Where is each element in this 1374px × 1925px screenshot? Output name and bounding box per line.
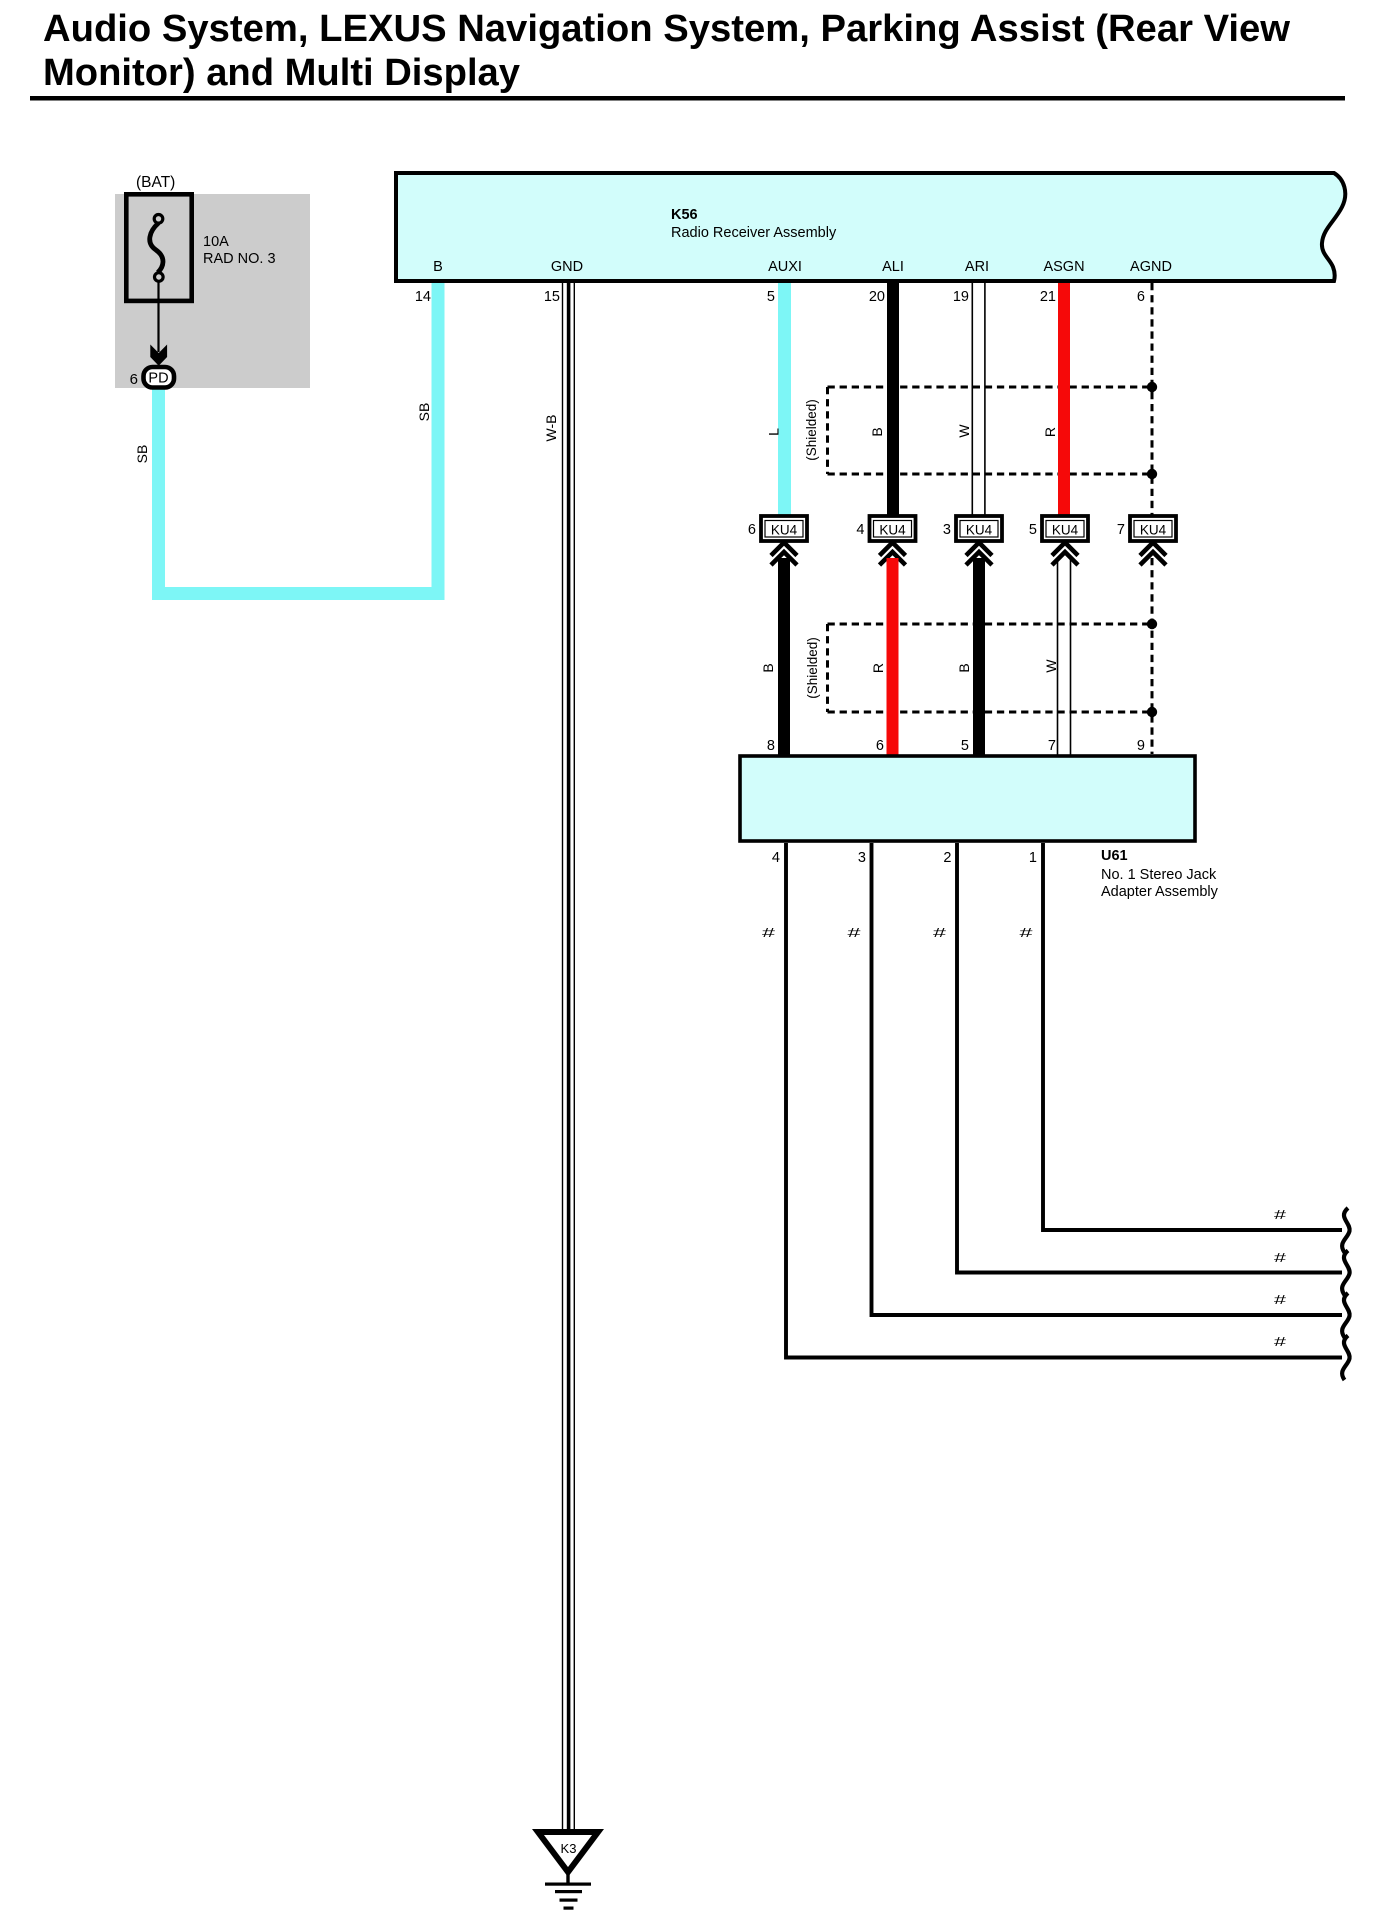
svg-text:#: # — [762, 926, 775, 940]
svg-text:(BAT): (BAT) — [136, 174, 175, 191]
U61 box No. 1 Stereo Jack Adapter Assembly — [740, 756, 1219, 900]
svg-text:#: # — [1274, 1208, 1286, 1222]
svg-text:B: B — [433, 259, 443, 275]
ground K3 — [538, 1832, 598, 1910]
svg-text:L: L — [766, 428, 782, 436]
svg-text:1: 1 — [1029, 850, 1037, 866]
svg-text:6: 6 — [748, 522, 756, 538]
svg-text:R: R — [870, 663, 886, 673]
svg-text:3: 3 — [943, 522, 951, 538]
connector KU4 pin 6 — [748, 516, 807, 565]
svg-text:6: 6 — [1137, 289, 1145, 305]
svg-text:GND: GND — [551, 259, 583, 275]
svg-text:5: 5 — [767, 289, 775, 305]
lower wire R (KU4-4 to U61 pin 6) — [887, 558, 899, 755]
svg-text:R: R — [1042, 427, 1058, 437]
wire from U61 pin 3 — [872, 843, 1343, 1315]
tear mark wire 3 — [1342, 1293, 1350, 1338]
svg-text:14: 14 — [415, 289, 431, 305]
svg-text:SB: SB — [416, 403, 432, 422]
svg-text:PD: PD — [148, 371, 168, 387]
svg-text:20: 20 — [869, 289, 885, 305]
connector KU4 pin 5 — [1029, 516, 1088, 565]
svg-text:B: B — [760, 663, 776, 672]
svg-text:#: # — [1274, 1293, 1286, 1307]
K56 box Radio Receiver Assembly — [396, 173, 1345, 281]
pin numbers above U61 — [767, 738, 1145, 754]
svg-text:Audio System, LEXUS Navigation: Audio System, LEXUS Navigation System, P… — [43, 8, 1290, 50]
svg-text:No. 1 Stereo Jack: No. 1 Stereo Jack — [1101, 867, 1217, 883]
svg-text:SB: SB — [134, 445, 150, 464]
wire ARI W (white, double thin line) — [972, 283, 986, 515]
svg-text:ASGN: ASGN — [1043, 259, 1084, 275]
lower wire dashed (KU4-7 to U61 pin 9) — [1151, 558, 1154, 754]
svg-text:19: 19 — [953, 289, 969, 305]
svg-text:ARI: ARI — [965, 259, 989, 275]
svg-text:KU4: KU4 — [879, 523, 906, 538]
svg-text:W-B: W-B — [543, 415, 559, 442]
svg-text:5: 5 — [961, 738, 969, 754]
connector KU4 pin 4 — [856, 516, 915, 565]
svg-text:7: 7 — [1117, 522, 1125, 538]
svg-text:6: 6 — [876, 738, 884, 754]
hash marks below U61 — [762, 926, 1033, 940]
hash marks at right wire ends — [1274, 1208, 1286, 1349]
connector KU4 pin 7 — [1117, 516, 1176, 565]
svg-text:(Shielded): (Shielded) — [805, 637, 820, 699]
svg-text:AGND: AGND — [1130, 259, 1172, 275]
svg-text:15: 15 — [544, 289, 560, 305]
svg-text:4: 4 — [856, 522, 864, 538]
svg-text:#: # — [1274, 1335, 1286, 1349]
svg-text:Radio Receiver Assembly: Radio Receiver Assembly — [671, 225, 837, 241]
lower shielded box — [805, 619, 1157, 717]
svg-text:6: 6 — [130, 371, 138, 388]
svg-text:RAD NO. 3: RAD NO. 3 — [203, 251, 276, 267]
svg-text:AUXI: AUXI — [768, 259, 802, 275]
svg-text:21: 21 — [1040, 289, 1056, 305]
svg-text:KU4: KU4 — [966, 523, 993, 538]
svg-text:K56: K56 — [671, 207, 698, 223]
svg-text:7: 7 — [1048, 738, 1056, 754]
svg-text:10A: 10A — [203, 234, 229, 250]
upper shielded box — [804, 382, 1157, 479]
svg-text:W: W — [956, 424, 972, 438]
fuse 10A RAD NO. 3 — [126, 194, 275, 301]
svg-text:5: 5 — [1029, 522, 1037, 538]
svg-text:4: 4 — [772, 850, 780, 866]
svg-text:#: # — [1020, 926, 1033, 940]
lower wire W (KU4-5 to U61 pin 7, double thin line) — [1057, 558, 1072, 755]
pin numbers under K56 — [415, 289, 1145, 305]
svg-text:#: # — [1274, 1251, 1286, 1265]
svg-text:B: B — [956, 663, 972, 672]
lower wire B (KU4-6 to U61 pin 8) — [778, 558, 790, 755]
connector KU4 pin 3 — [943, 516, 1002, 565]
wire AGND dashed — [1151, 283, 1154, 515]
svg-text:2: 2 — [943, 850, 951, 866]
svg-text:(Shielded): (Shielded) — [804, 399, 819, 461]
svg-text:#: # — [933, 926, 946, 940]
svg-text:B: B — [869, 427, 885, 436]
svg-text:ALI: ALI — [882, 259, 904, 275]
node 6 PD — [130, 367, 174, 388]
gray background panel — [115, 194, 310, 388]
svg-text:3: 3 — [858, 850, 866, 866]
svg-text:U61: U61 — [1101, 848, 1128, 864]
tear mark wire 4 — [1342, 1336, 1350, 1381]
wire AUXI L (cyan) — [778, 283, 791, 515]
wire from U61 pin 4 — [786, 843, 1342, 1358]
wire from U61 pin 2 — [957, 843, 1342, 1273]
svg-text:KU4: KU4 — [1052, 523, 1079, 538]
svg-text:#: # — [848, 926, 861, 940]
wire from U61 pin 1 — [1043, 843, 1342, 1230]
title — [30, 8, 1345, 101]
tear mark wire 1 — [1342, 1208, 1350, 1253]
svg-text:Monitor) and Multi Display: Monitor) and Multi Display — [43, 52, 520, 94]
wire SB from PD to K56 pin 14 — [159, 283, 439, 594]
pin numbers below U61 — [772, 850, 1037, 866]
svg-text:Adapter Assembly: Adapter Assembly — [1101, 884, 1219, 900]
wire GND W-B (down to ground K3) — [562, 283, 575, 1831]
svg-text:K3: K3 — [561, 1841, 577, 1856]
wire fuse to PD with arrow — [150, 282, 167, 366]
svg-text:W: W — [1043, 659, 1059, 673]
svg-text:KU4: KU4 — [771, 523, 798, 538]
tear mark wire 2 — [1342, 1251, 1350, 1296]
lower wire B (KU4-3 to U61 pin 5) — [973, 558, 985, 755]
wire ALI B (black) — [887, 283, 899, 515]
svg-text:KU4: KU4 — [1140, 523, 1167, 538]
wire ASGN R (red) — [1058, 283, 1070, 515]
svg-text:8: 8 — [767, 738, 775, 754]
svg-text:9: 9 — [1137, 738, 1145, 754]
